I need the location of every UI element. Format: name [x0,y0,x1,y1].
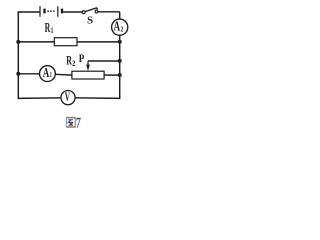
battery dashed omitted-cells marks [47,10,55,12]
svg-text:7: 7 [76,114,81,130]
wire battery to switch [63,11,82,13]
wire A1 to R2 [55,73,72,76]
wire R2 right to rail [104,74,120,76]
svg-text:R: R [66,54,72,68]
label R1 [45,21,51,36]
junction dot left rail / R1 row [16,40,20,44]
left rail [17,11,19,99]
wire top-left segment [18,11,40,13]
ammeter A1 circle [40,66,56,82]
battery cell 2 long plate [57,6,59,17]
wire A1 row left [18,73,39,75]
wire R1 row right [77,41,120,43]
label V [65,91,71,104]
svg-text:S: S [87,15,93,27]
caption figure 7 glyph box of tu [67,118,76,128]
switch S left contact [82,11,85,14]
rheostat slider arrowhead P [86,65,90,71]
svg-text:A: A [43,64,50,81]
svg-text:R: R [45,21,51,36]
junction dot right rail / R1 row [118,40,122,44]
rheostat slider stem [87,61,89,66]
svg-text:1: 1 [51,27,54,35]
label A2 [114,17,121,34]
svg-text:V: V [65,91,71,104]
wire switch to top-right corner [98,11,120,13]
junction dot right rail / R2 wire [118,73,122,77]
junction dot left rail / A1 row [16,72,20,76]
wire R1 row left [18,41,54,43]
bottom wire right of voltmeter [75,97,120,100]
resistor R1 body [54,38,77,46]
ammeter A2 circle [112,19,128,35]
right rail A2 to bottom-right corner [119,35,121,98]
svg-text:1: 1 [50,72,52,79]
label R2 [66,54,72,68]
bottom wire left of voltmeter [18,97,61,100]
svg-text:A: A [114,17,121,34]
rheostat R2 body [72,71,104,79]
junction dot right rail / slider wire [118,59,122,63]
right rail upper stub into A2 [119,12,121,19]
battery cell 2 short thick plate [61,9,63,14]
voltmeter V circle [61,91,75,105]
wire slider to right rail [88,60,120,62]
switch S right contact [95,10,98,13]
svg-text:2: 2 [72,58,76,68]
label P [79,53,85,65]
svg-text:P: P [79,53,85,65]
battery cell 1 short thick plate [43,9,45,14]
caption figure 7 digit [76,114,81,130]
battery cell 1 long plate [39,6,41,17]
label A1 [43,64,50,81]
switch S lever [85,8,98,12]
